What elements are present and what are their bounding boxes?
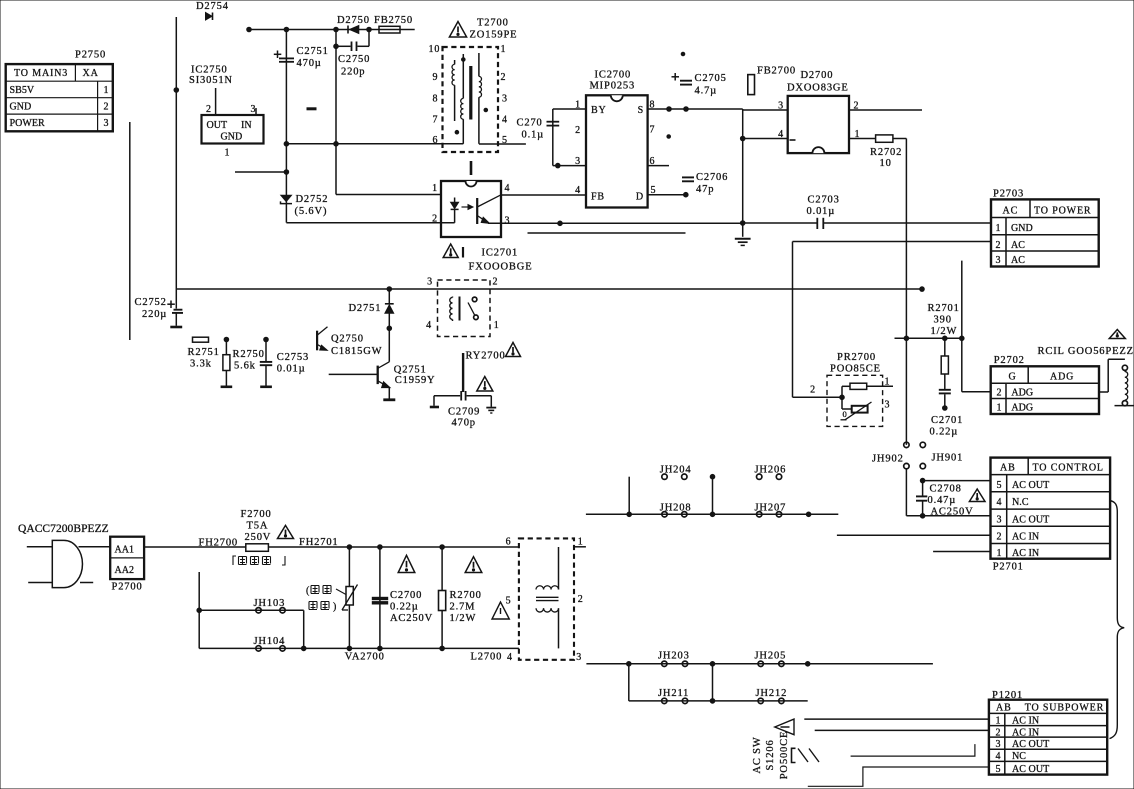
resistor R2701	[928, 303, 960, 389]
svg-text:PO500CE: PO500CE	[779, 731, 790, 780]
svg-text:5: 5	[997, 480, 1003, 491]
svg-text:AC: AC	[1003, 206, 1019, 217]
svg-text:TO SUBPOWER: TO SUBPOWER	[1025, 702, 1104, 713]
svg-text:4: 4	[426, 320, 432, 331]
svg-text:AC: AC	[1011, 255, 1025, 266]
svg-text:2: 2	[206, 104, 212, 115]
svg-text:AC IN: AC IN	[1012, 715, 1039, 726]
svg-text:ADG: ADG	[1050, 372, 1074, 383]
svg-text:4: 4	[505, 183, 511, 194]
svg-text:C2750: C2750	[338, 54, 370, 65]
capacitor C2753	[260, 337, 309, 387]
transistor Q2750	[317, 327, 382, 357]
node	[284, 170, 289, 175]
svg-text:N.C: N.C	[1012, 497, 1029, 508]
svg-text:D2750: D2750	[337, 15, 370, 26]
svg-text:R2701: R2701	[928, 303, 960, 314]
svg-text:3: 3	[576, 652, 582, 663]
node	[174, 88, 179, 93]
svg-text:IC2700: IC2700	[595, 70, 632, 81]
caption varistor chinese	[306, 586, 346, 613]
svg-text:3: 3	[505, 216, 511, 227]
ground	[735, 223, 751, 245]
svg-text:BY: BY	[591, 105, 607, 116]
svg-text:C2701: C2701	[931, 415, 963, 426]
svg-text:C2708: C2708	[930, 484, 962, 495]
svg-text:C270: C270	[517, 118, 543, 129]
wire	[628, 477, 630, 515]
svg-text:9: 9	[433, 72, 439, 83]
svg-text:C1815GW: C1815GW	[331, 346, 382, 357]
wire	[905, 139, 907, 445]
svg-text:): )	[333, 602, 337, 613]
caption fuse chinese	[233, 556, 285, 565]
jumper JH901	[920, 442, 963, 469]
wire	[793, 241, 992, 243]
line filter L2700	[471, 537, 584, 664]
wire	[629, 700, 808, 702]
relay RY2700	[426, 277, 520, 393]
svg-text:JH211: JH211	[658, 688, 689, 699]
svg-text:1/2W: 1/2W	[450, 613, 477, 624]
wire	[837, 534, 991, 536]
svg-text:1: 1	[578, 537, 584, 548]
svg-text:0.22µ: 0.22µ	[390, 602, 419, 613]
svg-text:JH203: JH203	[658, 651, 690, 662]
svg-text:L2700: L2700	[471, 652, 503, 663]
svg-text:250V: 250V	[245, 532, 272, 543]
wire	[175, 17, 177, 289]
diode D2751	[349, 287, 394, 362]
svg-text:GND: GND	[221, 132, 243, 143]
node	[681, 52, 685, 56]
svg-text:220µ: 220µ	[142, 309, 167, 320]
connector P2700	[110, 537, 144, 593]
svg-text:2: 2	[997, 532, 1003, 543]
node	[247, 27, 252, 32]
diode D2754	[196, 1, 229, 20]
svg-text:RCIL GOO56PEZZ: RCIL GOO56PEZZ	[1038, 346, 1134, 357]
wire	[286, 222, 454, 224]
svg-text:FB: FB	[591, 192, 605, 203]
svg-text:T5A: T5A	[247, 521, 269, 532]
svg-text:PR2700: PR2700	[837, 352, 876, 363]
capacitor C2709	[430, 377, 496, 429]
node	[627, 512, 632, 517]
varistor VA2700	[342, 547, 385, 663]
jumper JH204	[660, 465, 692, 480]
node	[710, 662, 715, 667]
node	[334, 142, 339, 147]
wire	[199, 647, 519, 649]
svg-text:1: 1	[104, 85, 110, 96]
node	[347, 545, 352, 550]
wire	[336, 194, 441, 196]
svg-text:R2750: R2750	[233, 349, 265, 360]
posistor PR2700	[793, 352, 894, 426]
svg-text:AA1: AA1	[115, 545, 135, 556]
wire	[586, 513, 838, 515]
regulator IC2750 SI3051N	[189, 65, 264, 159]
svg-text:7: 7	[650, 125, 656, 136]
svg-text:2: 2	[432, 214, 438, 225]
svg-text:1: 1	[997, 548, 1003, 559]
node	[806, 512, 811, 517]
svg-text:P2700: P2700	[112, 582, 143, 593]
svg-text:AC: AC	[1011, 240, 1025, 251]
svg-text:JH212: JH212	[756, 688, 788, 699]
svg-text:10: 10	[880, 158, 892, 169]
node	[710, 512, 715, 517]
svg-text:C2752: C2752	[135, 297, 167, 308]
svg-text:C2706: C2706	[696, 172, 728, 183]
svg-text:4: 4	[996, 751, 1002, 762]
switch S1206 AC SW	[752, 719, 819, 779]
svg-text:4: 4	[997, 497, 1003, 508]
svg-text:10: 10	[429, 44, 441, 55]
svg-text:D: D	[636, 192, 644, 203]
svg-text:3.3k: 3.3k	[190, 359, 212, 370]
wire	[742, 109, 744, 223]
svg-text:Q2750: Q2750	[331, 334, 364, 345]
node	[740, 136, 745, 141]
controller IC2700 MIP0253	[501, 70, 743, 208]
wire	[712, 477, 714, 515]
svg-text:ZO159PE: ZO159PE	[470, 30, 518, 41]
node	[284, 142, 289, 147]
node	[943, 336, 948, 341]
svg-text:C2751: C2751	[297, 46, 329, 57]
wire	[268, 546, 519, 548]
svg-text:GND: GND	[1011, 223, 1033, 234]
svg-text:JH902: JH902	[872, 454, 904, 465]
resistor R2751	[188, 337, 220, 369]
svg-text:8: 8	[433, 94, 439, 105]
node	[740, 221, 745, 226]
svg-text:AC OUT: AC OUT	[1012, 514, 1049, 525]
svg-text:0.01µ: 0.01µ	[277, 364, 306, 375]
wire	[808, 767, 989, 786]
svg-text:C2753: C2753	[277, 352, 309, 363]
svg-text:AC SW: AC SW	[752, 736, 763, 773]
wire	[198, 572, 200, 648]
wire	[574, 546, 586, 548]
svg-text:0.1µ: 0.1µ	[522, 130, 545, 141]
svg-text:AB: AB	[996, 702, 1012, 713]
jumper JH206	[755, 465, 787, 480]
node	[667, 135, 671, 139]
svg-text:P2702: P2702	[994, 355, 1025, 366]
svg-text:1: 1	[225, 148, 231, 159]
svg-text:R2702: R2702	[870, 147, 902, 158]
wire	[815, 729, 989, 731]
wire	[961, 261, 963, 392]
node	[627, 662, 632, 667]
svg-text:0: 0	[843, 409, 847, 419]
svg-text:FB2750: FB2750	[374, 15, 413, 26]
svg-text:390: 390	[934, 315, 952, 326]
svg-text:ADG: ADG	[1011, 403, 1033, 414]
wire	[144, 546, 246, 548]
svg-text:2: 2	[810, 385, 816, 396]
svg-text:IN: IN	[241, 120, 252, 131]
svg-text:2: 2	[575, 125, 581, 136]
svg-text:(5.6V): (5.6V)	[295, 206, 328, 217]
node	[284, 27, 289, 32]
node	[440, 646, 445, 651]
capacitor C2706	[682, 172, 728, 195]
svg-text:Q2751: Q2751	[394, 365, 427, 376]
svg-text:1: 1	[996, 223, 1002, 234]
svg-text:S: S	[638, 105, 644, 116]
svg-text:DXOO83GE: DXOO83GE	[787, 83, 849, 94]
warning	[398, 555, 415, 572]
optocoupler IC2701 FXOOOBGE	[432, 181, 743, 273]
svg-text:1/2W: 1/2W	[931, 326, 958, 337]
svg-text:D2752: D2752	[296, 194, 329, 205]
resistor R2750	[221, 337, 265, 387]
capacitor C2752	[135, 289, 184, 327]
svg-text:4: 4	[502, 115, 508, 126]
jumper JH104	[254, 636, 286, 651]
svg-text:IC2701: IC2701	[482, 248, 519, 259]
svg-text:FXOOOBGE: FXOOOBGE	[469, 262, 533, 273]
svg-text:C2703: C2703	[808, 195, 840, 206]
svg-text:3: 3	[996, 739, 1002, 750]
node	[378, 545, 383, 550]
svg-text:1: 1	[996, 715, 1002, 726]
svg-text:ADG: ADG	[1011, 387, 1033, 398]
svg-text:7: 7	[433, 115, 439, 126]
zener diode D2752	[281, 194, 329, 217]
connector table P2701	[991, 458, 1111, 573]
node	[334, 44, 339, 49]
svg-text:3: 3	[104, 118, 110, 129]
node	[920, 287, 925, 292]
svg-text:220p: 220p	[341, 67, 365, 78]
svg-text:3: 3	[502, 94, 508, 105]
capacitor C2701	[930, 390, 964, 438]
resistor R2702	[870, 135, 906, 169]
svg-text:AC IN: AC IN	[1012, 532, 1039, 543]
node	[347, 646, 352, 651]
wire	[176, 288, 922, 290]
wire	[586, 663, 933, 665]
svg-text:TO POWER: TO POWER	[1034, 206, 1091, 217]
node	[378, 646, 383, 651]
jumper JH212	[756, 688, 788, 704]
svg-text:2: 2	[996, 727, 1002, 738]
ferrite bead FB2700	[748, 66, 796, 95]
svg-text:470µ: 470µ	[297, 58, 322, 69]
capacitor C2750	[336, 30, 370, 78]
svg-text:5.6k: 5.6k	[234, 361, 256, 372]
svg-text:AC IN: AC IN	[1012, 727, 1039, 738]
svg-text:P2750: P2750	[75, 50, 106, 61]
resistor R2700	[439, 547, 482, 648]
svg-text:4.7µ: 4.7µ	[695, 86, 718, 97]
svg-text:AC OUT: AC OUT	[1012, 739, 1049, 750]
svg-text:2: 2	[501, 72, 507, 83]
jumper JH205	[755, 651, 787, 667]
svg-text:3: 3	[996, 255, 1002, 266]
svg-text:VA2700: VA2700	[345, 652, 385, 663]
node	[440, 545, 445, 550]
capacitor C2700	[372, 547, 433, 648]
svg-text:0.01µ: 0.01µ	[807, 206, 836, 217]
svg-text:2: 2	[578, 594, 584, 605]
fuse F2700	[199, 509, 339, 551]
svg-text:NC: NC	[1012, 751, 1026, 762]
svg-text:SI3051N: SI3051N	[189, 75, 233, 86]
svg-text:TO CONTROL: TO CONTROL	[1033, 463, 1104, 474]
svg-text:3: 3	[885, 400, 891, 411]
node	[710, 699, 715, 704]
node	[710, 474, 715, 479]
svg-text:3: 3	[997, 514, 1003, 525]
svg-text:C1959Y: C1959Y	[395, 375, 436, 386]
jumper JH203	[658, 651, 690, 667]
svg-text:R2751: R2751	[188, 347, 220, 358]
svg-text:MIP0253: MIP0253	[590, 81, 636, 92]
wire	[235, 171, 286, 173]
mark	[307, 107, 317, 110]
svg-text:C2700: C2700	[390, 590, 422, 601]
node	[301, 646, 306, 651]
wire	[628, 664, 630, 701]
svg-text:1: 1	[494, 320, 500, 331]
svg-text:FH2700: FH2700	[199, 538, 239, 549]
wire	[933, 551, 990, 553]
capacitor C2705	[672, 73, 727, 97]
svg-text:1: 1	[432, 183, 438, 194]
svg-text:6: 6	[433, 135, 439, 146]
svg-text:2: 2	[997, 387, 1003, 398]
svg-text:AC OUT: AC OUT	[1012, 764, 1049, 775]
svg-text:S1206: S1206	[765, 739, 776, 770]
AC inlet QACC7200BPEZZ	[18, 523, 110, 588]
wire	[129, 122, 131, 340]
jumper JH207	[755, 503, 787, 518]
svg-text:P2703: P2703	[993, 189, 1024, 200]
capacitor C2708	[916, 478, 991, 518]
svg-text:3: 3	[427, 277, 433, 288]
svg-text:POO85CE: POO85CE	[830, 364, 881, 375]
svg-text:P2701: P2701	[993, 562, 1024, 573]
svg-text:2: 2	[104, 101, 110, 112]
wire	[906, 515, 990, 517]
svg-text:JH205: JH205	[755, 651, 787, 662]
svg-text:GND: GND	[10, 101, 32, 112]
jumper JH902	[872, 442, 909, 516]
node	[805, 662, 810, 667]
svg-text:5: 5	[506, 596, 512, 607]
svg-text:0.22µ: 0.22µ	[930, 427, 959, 438]
svg-text:D2754: D2754	[196, 1, 229, 12]
svg-text:D2700: D2700	[801, 70, 834, 81]
node	[197, 608, 202, 613]
wire	[712, 664, 714, 701]
svg-text:0.47µ: 0.47µ	[928, 495, 957, 506]
warning	[465, 557, 482, 573]
node	[367, 27, 372, 32]
wire	[286, 143, 463, 145]
svg-text:AC250V: AC250V	[390, 613, 433, 624]
wire	[962, 391, 991, 393]
svg-text:470p: 470p	[452, 418, 476, 429]
ferrite bead FB2750	[374, 15, 413, 33]
svg-text:2: 2	[996, 240, 1002, 251]
svg-text:R2700: R2700	[450, 590, 482, 601]
svg-text:1: 1	[885, 377, 891, 388]
warning	[492, 602, 509, 619]
diode D2750	[337, 15, 370, 34]
degaussing coil RCIL GOO56PEZZ	[1038, 330, 1134, 406]
svg-text:TO MAIN3: TO MAIN3	[14, 68, 68, 79]
svg-text:1: 1	[997, 403, 1003, 414]
capacitor C2703	[743, 195, 991, 230]
wire	[895, 337, 962, 339]
connector table P2703	[991, 189, 1099, 267]
svg-text:AC OUT: AC OUT	[1012, 480, 1049, 491]
svg-text:QACC7200BPEZZ: QACC7200BPEZZ	[18, 523, 109, 535]
wire	[335, 30, 337, 195]
wire	[792, 242, 794, 398]
svg-text:F2700: F2700	[241, 509, 272, 520]
diode block D2700 DX0085GE	[743, 70, 922, 153]
svg-text:AC IN: AC IN	[1012, 548, 1039, 559]
svg-text:C2709: C2709	[448, 407, 480, 418]
svg-text:5: 5	[996, 764, 1002, 775]
svg-text:G: G	[1009, 372, 1017, 383]
svg-text:SB5V: SB5V	[10, 85, 35, 96]
wire	[851, 744, 975, 756]
connector table P2702	[991, 355, 1099, 414]
wire	[528, 232, 686, 234]
svg-text:AB: AB	[1000, 463, 1016, 474]
svg-text:T2700: T2700	[477, 18, 509, 29]
svg-text:AA2: AA2	[115, 565, 135, 576]
node	[960, 336, 965, 341]
node	[904, 336, 909, 341]
svg-text:4: 4	[507, 652, 513, 663]
svg-text:JH901: JH901	[932, 453, 964, 464]
svg-text:XA: XA	[83, 68, 99, 79]
capacitor C2704	[517, 109, 560, 166]
connector table P1201	[989, 690, 1107, 775]
wire	[249, 29, 415, 31]
svg-text:(: (	[306, 586, 310, 597]
capacitor C2751	[274, 30, 329, 223]
jumper JH103	[199, 598, 304, 648]
node	[558, 221, 563, 226]
svg-text:2.7M: 2.7M	[450, 602, 476, 613]
brace	[1110, 501, 1125, 739]
svg-text:FB2700: FB2700	[757, 66, 796, 77]
svg-text:RY2700: RY2700	[466, 351, 506, 362]
svg-text:POWER: POWER	[10, 118, 46, 129]
jumper JH211	[658, 688, 689, 704]
svg-text:1: 1	[501, 44, 507, 55]
svg-text:D2751: D2751	[349, 303, 382, 314]
svg-text:6: 6	[506, 537, 512, 548]
svg-text:C2705: C2705	[695, 73, 727, 84]
svg-text:2: 2	[493, 277, 499, 288]
svg-text:OUT: OUT	[207, 120, 228, 131]
svg-text:47p: 47p	[696, 184, 714, 195]
connector table P2750	[6, 50, 113, 132]
transistor Q2751	[329, 362, 436, 400]
